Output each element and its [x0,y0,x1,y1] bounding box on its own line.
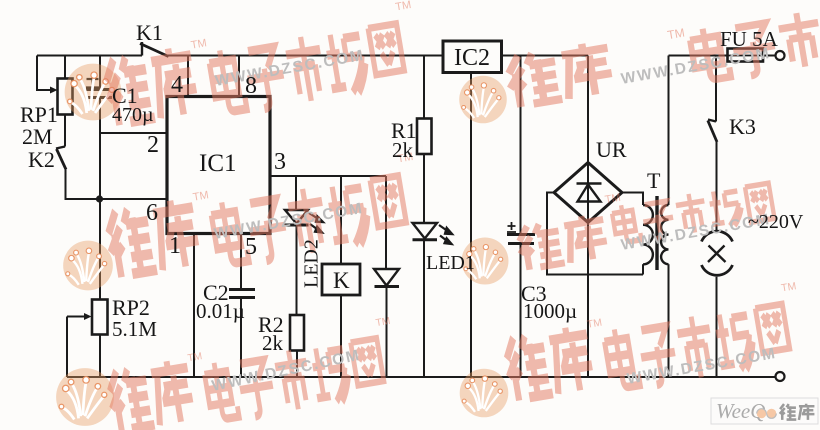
C1 polarity mark [86,73,99,88]
transformer T secondary winding [643,205,653,264]
wire top rail left segment [37,55,142,57]
capacitor C3 [507,235,535,244]
svg-text:TM: TM [666,26,685,43]
node junction dot [96,195,103,202]
wire RP1 top stub [64,56,66,79]
svg-text:K2: K2 [28,147,55,172]
svg-text:IC1: IC1 [199,150,237,177]
wire RP2 bottom to rail [99,335,101,378]
svg-text:2: 2 [147,132,159,158]
svg-text:2k: 2k [392,138,414,162]
wire C1 top stub [99,56,101,90]
svg-text:0.01µ: 0.01µ [196,299,245,323]
wire top rail from IC2 to bridge [502,55,589,57]
wire R2 to rail [296,351,298,378]
row3 left logo [56,368,114,426]
transformer T primary winding [661,205,668,264]
wire primary bottom to rail [668,264,670,377]
wire pin 3 [270,175,386,177]
fuse FU [728,49,764,62]
svg-text:K: K [333,268,350,293]
svg-text:K3: K3 [729,114,756,139]
row2 left logo [63,241,113,291]
gray dzsc text [210,45,778,395]
wire diode D to rail [386,287,388,378]
svg-text:1000µ: 1000µ [523,299,577,323]
svg-text:UR: UR [596,137,627,162]
wire IC2 bottom pin to rail [470,73,472,378]
resistor R2 [290,315,304,351]
wire LED1 to rail [423,240,425,377]
wire lamp to rail [716,277,718,377]
switch K1 [140,42,169,57]
svg-text:LED2: LED2 [301,239,323,288]
wire LED2 top [295,176,297,210]
wire C2 to rail [240,298,242,378]
terminal bottom [776,372,785,381]
RP1 wiper arrow [50,87,58,94]
UR inner diode [577,184,602,202]
svg-text:5.1M: 5.1M [112,317,157,341]
wire LED2 to R2 [296,225,298,315]
wire left rail to RP1 wiper [37,56,52,91]
svg-text:LED1: LED1 [426,252,475,274]
switch K2 [56,147,66,170]
svg-text:8: 8 [245,73,257,99]
svg-text:2k: 2k [262,331,284,355]
wire C1 down through pin2 node to RP2 [99,98,101,300]
wire RP1 to K2 [64,115,66,147]
wire R1 top stub [423,56,425,119]
svg-text:6: 6 [146,200,158,226]
svg-text:2M: 2M [22,124,53,149]
wire secondary bottom stub [642,264,644,274]
svg-text:IC2: IC2 [454,45,490,71]
wire bridge left corner to secondary bottom [547,193,643,275]
svg-text:3: 3 [274,149,286,175]
wire top rail from K1 to IC2 [168,55,444,57]
row1 left logo [65,64,122,121]
wire bridge vertical [587,56,589,378]
RP2 wiper arrow [67,316,84,318]
resistor RP1 [58,79,73,115]
wire K3 to lamp [716,142,718,230]
svg-text:~220V: ~220V [748,211,804,233]
wire R1 to LED1 [423,154,425,223]
wire relay K top [340,176,342,264]
row2 right logo [462,238,509,285]
svg-text:FU 5A: FU 5A [720,27,779,51]
wire pin 8 stub [238,56,240,97]
wire bridge right corner to secondary top [622,193,643,206]
wire diode D top [385,176,387,269]
resistor RP2 [92,300,108,335]
wire C3 to rail [520,244,522,378]
svg-text:1: 1 [169,233,181,259]
wire pin 5 stub [240,234,242,290]
svg-text:4: 4 [171,72,183,98]
wire K3 top stub [715,56,717,122]
row1 right logo [459,76,507,124]
svg-text:T: T [647,168,661,193]
bridge rectifier UR diamond [554,163,622,223]
wire pin 4 stub [187,56,189,97]
capacitor C1 [86,90,113,98]
svg-text:470µ: 470µ [112,104,154,126]
capacitor C2 [229,290,255,298]
wire fuse to terminal [763,55,776,57]
wire primary top to AC rail [668,56,670,206]
switch K3 [708,120,717,143]
IC1 box [167,97,270,234]
wire C3 top stub [520,56,522,235]
WeeQoo logo box [711,398,818,424]
diode D [374,269,399,287]
row3 right logo [460,369,509,418]
IC2 box [443,41,502,73]
svg-text:K1: K1 [136,20,163,45]
lamp [702,231,733,275]
relay K box [322,264,360,295]
LED1 arrows [439,225,453,245]
LED LED2 [284,210,309,225]
transformer core [655,196,658,270]
LED LED1 [413,223,438,240]
resistor R1 [417,119,432,155]
wire AC top rail [669,55,728,57]
wire pin 1 stub [193,234,195,378]
C3 polarity mark [507,222,516,232]
wire pin 2 [100,132,167,134]
LED2 arrows [309,213,324,233]
wire K2 to pin6 node [66,170,168,200]
terminal top [776,51,785,60]
svg-text:5: 5 [245,234,257,260]
wire relay K to rail [340,295,342,377]
wire bottom rail [67,376,776,378]
wire RP2 wiper down to bottom rail [66,317,68,378]
